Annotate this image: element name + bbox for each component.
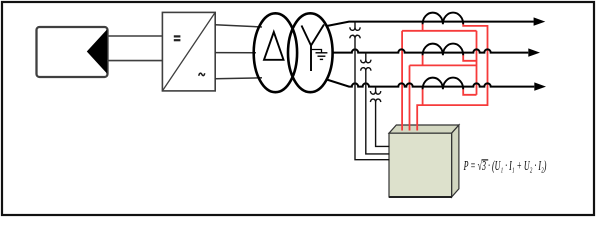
svg-text:P = √3 · (U₁ · I₁ + U₂ · I₂): P = √3 · (U₁ · I₁ + U₂ · I₂) [463, 159, 547, 174]
